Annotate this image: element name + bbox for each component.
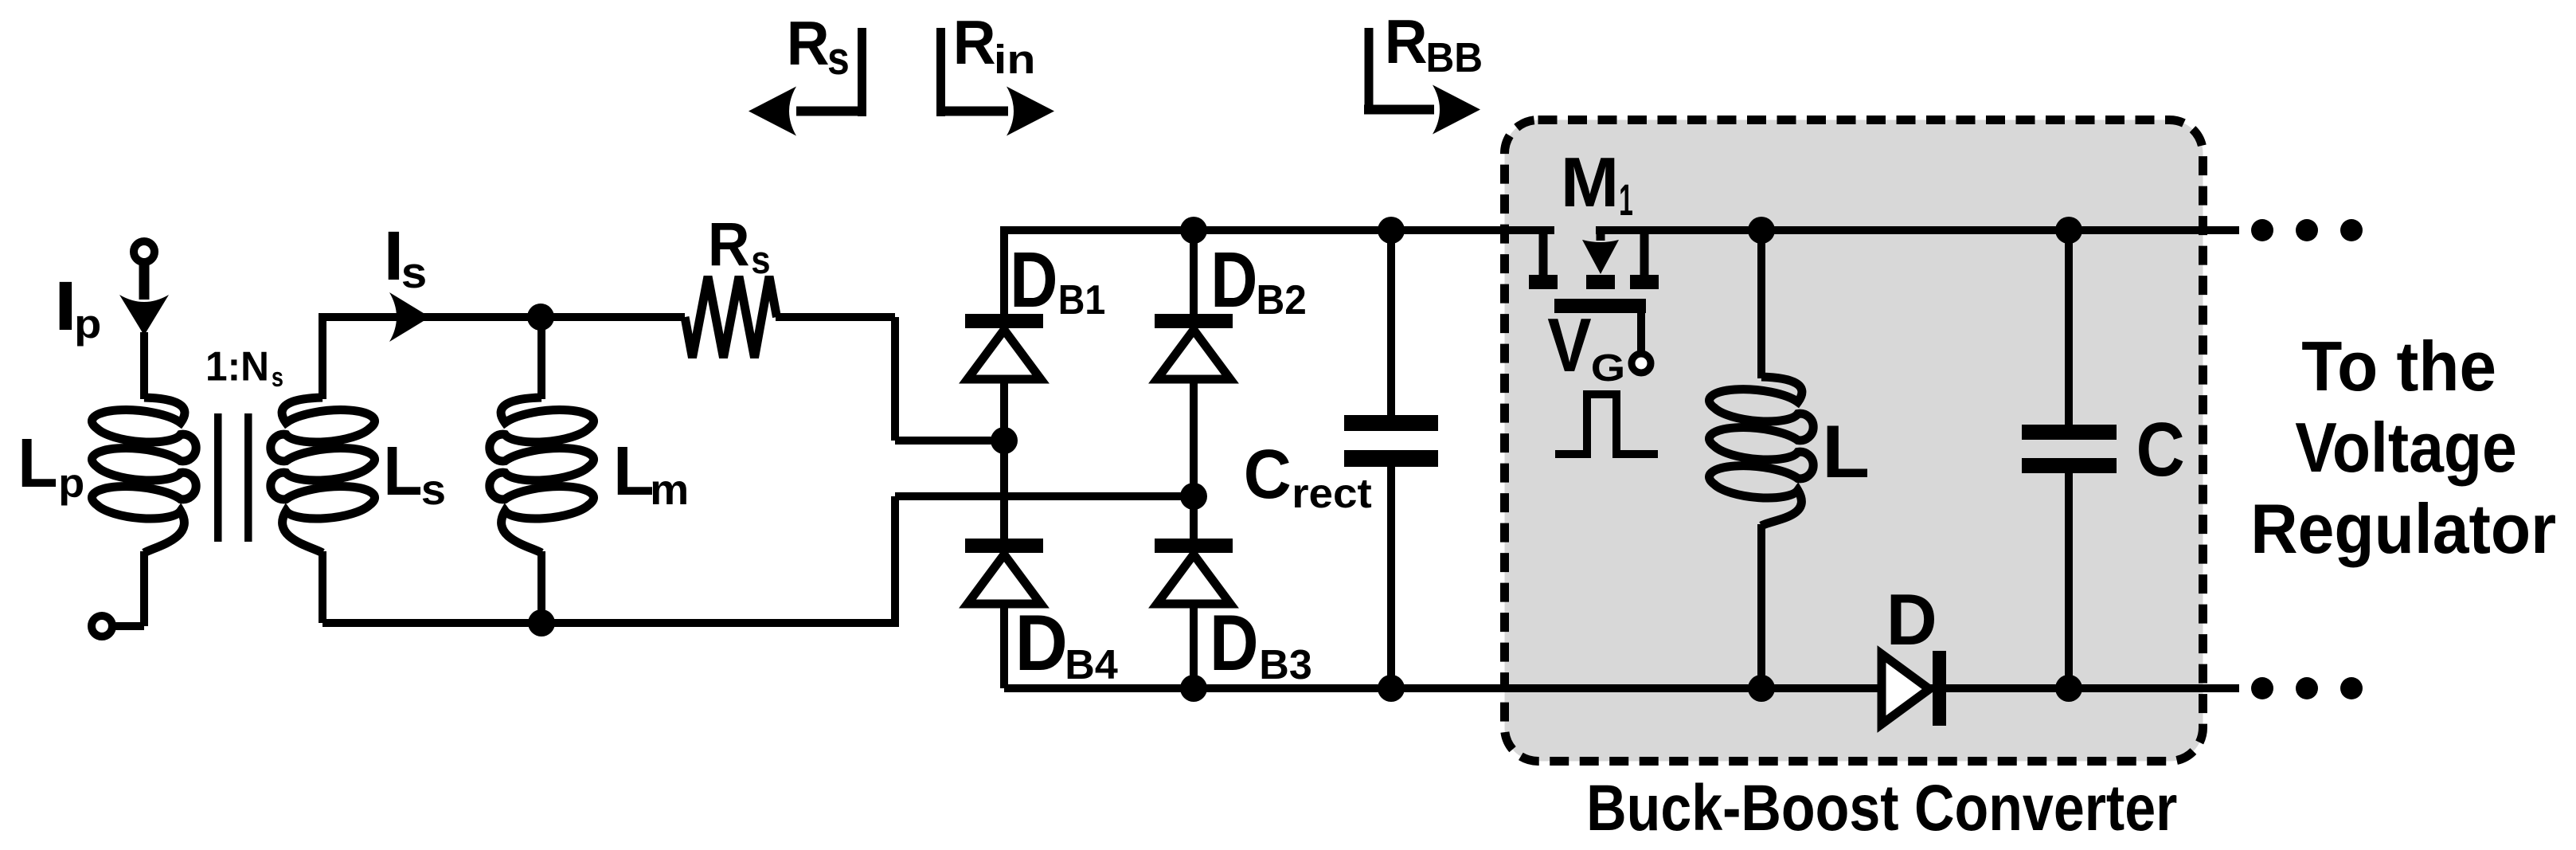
label Ip (54, 268, 102, 347)
svg-text:m: m (650, 466, 689, 514)
svg-text:L: L (613, 433, 654, 510)
svg-text:D: D (1886, 580, 1937, 660)
wire top rail drain to output (1596, 226, 2239, 234)
svg-text:B3: B3 (1259, 642, 1311, 688)
gate pulse waveform (1555, 394, 1658, 454)
junction bottom rail DB3 (1180, 675, 1207, 702)
svg-text:L: L (1822, 410, 1870, 494)
label Buck-Boost Converter (1586, 772, 2177, 844)
junction bridge right input (1180, 483, 1207, 510)
inductor Ls (271, 398, 375, 553)
diode DB2 (1155, 314, 1233, 379)
svg-text:Regulator: Regulator (2250, 490, 2556, 568)
label arrow Rs (787, 9, 850, 84)
capacitor C (2022, 425, 2117, 473)
label To the Voltage Regulator (2250, 327, 2556, 569)
label DB3 (1210, 598, 1312, 688)
mosfet M1 gate bar (1554, 299, 1646, 313)
wire Crect bottom (1387, 466, 1395, 688)
wire bridge bottom rail (1004, 684, 2239, 692)
svg-text:in: in (994, 37, 1036, 82)
svg-text:C: C (2136, 407, 2185, 492)
mosfet M1 drain pad (1630, 275, 1659, 289)
svg-text:L: L (18, 424, 57, 502)
wire DB3 to bottom rail (1190, 602, 1198, 688)
label DB2 (1210, 237, 1307, 324)
svg-text:To the: To the (2301, 327, 2496, 405)
junction bottom rail L (1748, 675, 1775, 702)
wire Rs to bridge (776, 317, 1004, 441)
svg-text:D: D (1010, 237, 1057, 324)
wire node to DB4 (1000, 441, 1008, 540)
label Ls (383, 432, 446, 514)
svg-text:B4: B4 (1065, 642, 1118, 688)
junction bottom rail C (2055, 675, 2082, 702)
continuation dots bottom rail (2251, 677, 2363, 699)
svg-text:D: D (1210, 237, 1257, 324)
inductor L (1710, 377, 1814, 526)
buck-boost converter dashed box (1505, 120, 2203, 762)
svg-text:BB: BB (1426, 34, 1483, 80)
svg-text:p: p (58, 460, 84, 506)
svg-text:s: s (272, 362, 283, 393)
mosfet M1 gate wire (1637, 311, 1645, 354)
junction bottom rail Crect (1378, 675, 1405, 702)
label Crect (1244, 436, 1372, 516)
svg-text:Voltage: Voltage (2295, 408, 2517, 487)
mosfet M1 source pad (1529, 275, 1558, 289)
impedance arrow Rs (749, 28, 866, 136)
mosfet M1 drain stub (1640, 230, 1649, 276)
svg-text:G: G (1591, 347, 1625, 390)
junction Lm top (527, 304, 554, 331)
junction top rail DB2 (1180, 217, 1207, 244)
capacitor Crect (1344, 415, 1438, 467)
svg-text:L: L (383, 432, 422, 510)
diode DB4 (965, 539, 1043, 604)
svg-text:s: s (827, 33, 850, 84)
junction top rail L (1748, 217, 1775, 244)
wire DB1 to node (1000, 378, 1008, 441)
svg-text:1:N: 1:N (205, 343, 269, 389)
diode DB1 (965, 314, 1043, 379)
current source arrow Ip shaft (139, 260, 150, 300)
wire DB4 to bottom rail (1000, 602, 1008, 688)
svg-text:R: R (708, 210, 750, 278)
impedance arrow Rin (936, 28, 1054, 136)
svg-text:D: D (1210, 598, 1259, 687)
label DB4 (1015, 600, 1118, 688)
mosfet M1 body arrow (1582, 230, 1619, 274)
junction bridge left input (991, 427, 1018, 454)
wire L top stub (1757, 230, 1765, 378)
svg-text:R: R (787, 9, 830, 78)
wire arrow to Lp (140, 332, 148, 399)
wire C top (2065, 230, 2073, 425)
wire Lm top stub (537, 317, 545, 399)
wire secondary bottom rail (322, 619, 895, 627)
junction Lm bottom (528, 609, 555, 637)
terminal top of primary (134, 241, 154, 262)
svg-text:s: s (401, 249, 427, 298)
label Lp (18, 424, 84, 507)
arrow Is head (389, 292, 430, 342)
label 1:Ns (205, 343, 283, 392)
svg-text:D: D (1015, 600, 1068, 687)
svg-text:R: R (953, 8, 996, 77)
wire Lm bottom stub (537, 551, 545, 623)
svg-text:rect: rect (1292, 471, 1372, 516)
wire Ls top stub (319, 313, 326, 399)
diode DB3 (1155, 539, 1233, 604)
junction top rail Crect (1378, 217, 1405, 244)
svg-text:V: V (1547, 303, 1592, 388)
svg-text:p: p (74, 302, 101, 347)
svg-text:M: M (1561, 143, 1619, 221)
wire Crect top (1387, 230, 1395, 416)
resistor Rs (685, 276, 777, 358)
label M1 (1561, 143, 1633, 225)
current source arrow Ip head (119, 295, 169, 335)
mosfet M1 bulk pad (1586, 275, 1615, 289)
wire DB2 to node (1190, 378, 1198, 496)
label arrow Rin (953, 8, 1036, 82)
wire bottom input to bridge (895, 496, 1194, 627)
mosfet M1 source stub (1539, 230, 1548, 276)
continuation dots top rail (2251, 219, 2363, 241)
inductor Lm (490, 398, 594, 553)
wire Ls bottom stub (319, 551, 326, 623)
svg-text:B2: B2 (1257, 276, 1307, 323)
terminal bottom of primary (92, 616, 112, 637)
label arrow RBB (1385, 7, 1483, 80)
wire bridge left branch upper (1000, 226, 1008, 315)
wire secondary top rail (322, 313, 685, 321)
svg-text:C: C (1244, 436, 1292, 513)
label VG (1547, 303, 1625, 390)
wire C bottom (2065, 473, 2073, 688)
transformer core bars (214, 413, 252, 542)
label Lm (613, 433, 689, 514)
svg-text:1: 1 (1619, 175, 1633, 225)
svg-text:s: s (421, 465, 446, 514)
wire bridge right branch upper (1190, 230, 1198, 315)
svg-text:B1: B1 (1058, 277, 1106, 323)
label L (1822, 410, 1870, 494)
wire node to DB3 (1190, 496, 1198, 540)
label C (2136, 407, 2185, 492)
wire L bottom stub (1757, 524, 1765, 688)
label Is (384, 218, 428, 298)
impedance arrow RBB (1364, 28, 1480, 135)
wire bridge top rail (1004, 226, 1554, 234)
svg-text:s: s (751, 238, 770, 282)
inductor Lp (92, 398, 196, 553)
diode D (1882, 651, 1946, 726)
mosfet M1 gate terminal (1632, 354, 1651, 373)
junction top rail C (2055, 217, 2082, 244)
label DB1 (1010, 237, 1105, 324)
svg-text:R: R (1385, 7, 1428, 76)
label Rs (708, 210, 771, 281)
svg-text:Buck-Boost Converter: Buck-Boost Converter (1586, 772, 2177, 844)
wire Lp to bottom terminal (111, 551, 144, 626)
label D (1886, 580, 1937, 660)
